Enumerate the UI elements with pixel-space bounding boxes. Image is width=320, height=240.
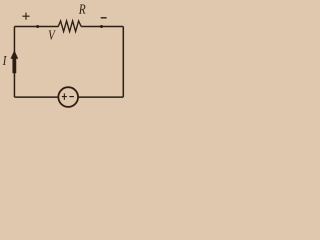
current arrow I (shaft) [12, 58, 16, 73]
voltage source - terminal mark [69, 96, 74, 98]
voltage source (circle) [58, 87, 78, 107]
resistor R [58, 21, 81, 32]
wire: bottom-right segment (corner to source) [78, 96, 123, 98]
wire: top-right horizontal segment (resistor to corner) [81, 26, 123, 28]
junction node (left V probe) [36, 25, 39, 28]
label R [79, 5, 86, 14]
label I [3, 56, 7, 65]
wire: right vertical branch [122, 27, 124, 98]
polarity label + (top left) [22, 13, 29, 20]
label V (voltage across R) [49, 30, 56, 39]
voltage source + terminal mark [62, 93, 67, 100]
junction node (right V probe) [100, 25, 103, 28]
wire: bottom-left segment (source to corner) [14, 96, 58, 98]
wire: top-left horizontal segment (corner to resistor) [14, 26, 58, 28]
wire: left vertical branch [13, 27, 15, 98]
polarity label - (top right) [101, 17, 107, 19]
current arrow I (head) [11, 50, 19, 59]
